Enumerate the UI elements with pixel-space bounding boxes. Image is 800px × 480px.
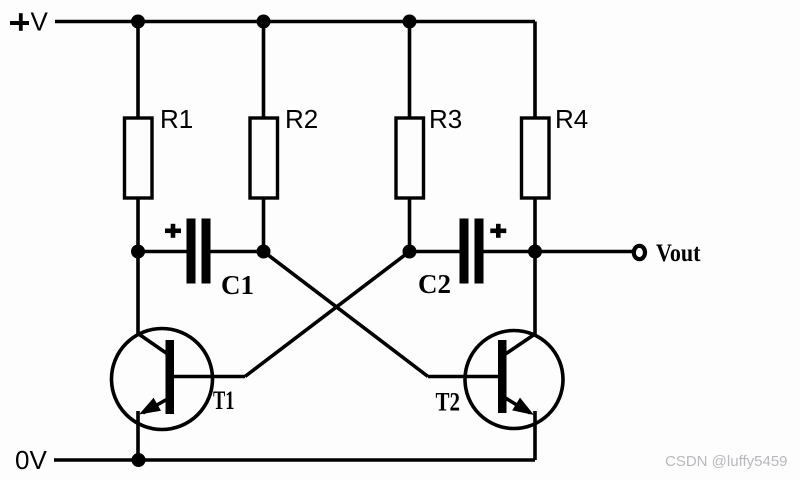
junction C1 right / R2 [257, 245, 271, 259]
resistor R4 [522, 118, 550, 198]
junction bottom rail / T1 emitter [132, 453, 146, 467]
wire R4 bottom lead [533, 198, 537, 252]
svg-text:C2: C2 [418, 269, 451, 299]
wire C1 left lead [138, 250, 187, 254]
wire R1 bottom lead [136, 198, 140, 252]
wire cross-couple C2 to T1 base [245, 252, 410, 377]
wire cross-couple C1 to T2 base [264, 252, 429, 377]
svg-text:Vout: Vout [656, 240, 701, 267]
wire R3 top lead [408, 22, 412, 119]
svg-text:C1: C1 [221, 270, 254, 300]
wire R4 top lead [533, 22, 537, 119]
transistor T2 [428, 252, 563, 461]
net +V label [10, 6, 49, 36]
junction top rail / R2 [257, 15, 271, 29]
svg-text:R3: R3 [429, 104, 462, 134]
wire C2 right lead [484, 250, 536, 254]
svg-text:R2: R2 [285, 104, 318, 134]
resistor R3 [396, 118, 424, 198]
terminal Vout [634, 246, 645, 259]
label C2 polarity + [490, 224, 506, 238]
junction C2 right / R4 [528, 245, 542, 259]
resistor R2 [250, 118, 278, 198]
svg-text:T1: T1 [213, 386, 235, 415]
svg-text:V: V [31, 6, 49, 36]
svg-text:T2: T2 [436, 388, 461, 417]
junction top rail / R3 [403, 15, 417, 29]
capacitor C1 [187, 219, 211, 284]
junction C2 left / R3 [403, 245, 417, 259]
wire 0V bottom rail [54, 458, 535, 462]
capacitor C2 [460, 219, 484, 284]
resistor R1 [125, 118, 153, 198]
junction C1 left / R1 [131, 245, 145, 259]
wire R2 bottom lead [262, 198, 266, 252]
label C1 polarity + [165, 224, 181, 238]
wire R1 top lead [136, 22, 140, 119]
junction top rail / R1 [131, 15, 145, 29]
svg-text:CSDN @luffy5459: CSDN @luffy5459 [665, 453, 788, 470]
svg-text:0V: 0V [15, 445, 47, 475]
svg-text:R1: R1 [160, 104, 193, 134]
wire C2 left lead [410, 250, 461, 254]
wire R3 bottom lead [408, 198, 412, 252]
wire +V top rail [55, 20, 535, 24]
svg-text:R4: R4 [555, 104, 588, 134]
wire C1 right lead [211, 250, 264, 254]
wire output [535, 250, 632, 254]
transistor T1 [112, 252, 246, 461]
wire R2 top lead [262, 22, 266, 119]
